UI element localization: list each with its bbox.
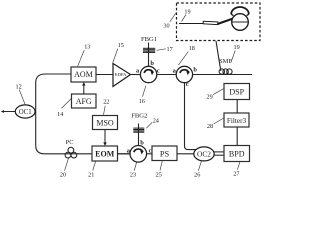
svg-text:PS: PS [160,149,170,158]
svg-text:DSP: DSP [229,87,244,96]
svg-text:26: 26 [194,171,200,178]
svg-text:22: 22 [103,98,109,105]
pointer 15 [113,49,118,63]
pointer 21 [93,161,96,170]
svg-text:21: 21 [88,171,94,178]
svg-text:16: 16 [139,98,145,105]
wire OC1 to AOM and down to PC/EOM [36,74,130,154]
wire Filter3 to DSP [236,100,238,114]
pointer 16 [143,86,146,97]
pointer 23 [134,162,136,170]
amplifier EDFA [113,64,131,87]
svg-text:13: 13 [84,43,90,50]
svg-text:AFG: AFG [76,97,92,106]
svg-text:OC1: OC1 [19,109,32,116]
AOM box [71,67,96,82]
pointer 14 [62,99,72,109]
optical coupler OC2 [194,147,214,161]
fiber wound lead (thick) [218,18,235,24]
double wire OC2 to BPD [214,152,224,155]
FBG2 fiber stub [138,124,140,146]
pointer 28 [214,118,224,124]
svg-text:18: 18 [189,45,195,52]
wire BPD to Filter3 [236,127,238,146]
svg-text:23: 23 [130,171,136,178]
svg-text:24: 24 [153,118,159,125]
Filter3 box [224,113,249,127]
svg-text:MSO: MSO [96,119,114,128]
pointer 27 [237,162,240,170]
svg-text:28: 28 [207,123,213,130]
pointer 26 [198,161,201,171]
wire circulator18 to fiber end [193,74,252,76]
pointer 25 [160,161,162,171]
svg-text:FBG2: FBG2 [131,113,147,120]
SMF coil [219,69,232,74]
fiber sensing segment [203,21,218,24]
svg-text:15: 15 [118,42,124,49]
dashed enclosure 30 [177,3,261,41]
svg-text:b: b [140,140,144,147]
svg-text:19: 19 [234,44,240,51]
wire circulator16 to circulator18 [157,74,177,76]
wire AOM to EDFA [96,74,113,76]
svg-text:b: b [193,67,197,74]
pointer 17 [157,49,166,51]
fiber inside box [179,23,203,25]
FBG1 grating bars [143,48,155,52]
wire circulator23 to PS [147,153,152,155]
wire circulator18 port c down to OC2 [185,83,197,150]
circulator 18 [176,66,192,82]
arrow MSO to EOM [103,130,106,147]
svg-text:25: 25 [156,171,162,178]
pointer 24 [146,122,152,128]
svg-text:12: 12 [16,83,22,90]
svg-text:29: 29 [207,93,213,100]
svg-text:BPD: BPD [229,149,245,158]
vibration arc [231,7,249,14]
svg-text:19: 19 [184,8,190,15]
svg-text:PC: PC [66,139,74,146]
FBG2 grating bars [133,128,144,132]
EOM box [92,146,118,161]
svg-text:c: c [186,81,189,88]
wire EDFA to circulator 16 [131,74,141,76]
svg-text:30: 30 [163,23,169,30]
pointer 19 right [231,51,236,64]
arrow AFG to AOM [82,82,85,94]
pointer 13 [78,50,85,66]
PS box [152,146,177,161]
pointer 30 [170,13,176,22]
pointer 12 [19,90,25,105]
svg-text:EDFA: EDFA [115,72,127,77]
vibration arc end hooks [231,14,249,15]
arrow laser input head [1,110,4,113]
FBG1 fiber stub [148,43,150,67]
optical coupler OC1 [15,105,35,118]
circulator 16 [140,66,156,82]
wire sensing fiber into dashed box [216,41,221,71]
pointer 18 [178,52,188,66]
svg-text:c: c [157,68,160,75]
PC coil [65,147,77,158]
svg-text:27: 27 [233,171,239,178]
svg-text:EOM: EOM [95,150,115,159]
wire PS to OC2 [177,153,194,155]
svg-text:14: 14 [57,111,63,118]
svg-text:17: 17 [167,46,173,53]
drum axis line [232,21,249,23]
svg-text:FBG1: FBG1 [141,36,157,43]
svg-text:SMF: SMF [219,58,232,65]
wire EOM to circulator 23 [118,153,131,155]
pointer 20 [65,158,69,170]
AFG box [72,94,97,108]
svg-text:20: 20 [60,171,66,178]
pointer 19 inside box [182,15,187,22]
svg-text:b: b [150,60,154,67]
circulator 23 [130,146,147,163]
wire laser input [3,111,16,113]
svg-text:Filter3: Filter3 [227,117,247,125]
DSP box [224,84,250,100]
pointer 22 [104,106,106,115]
svg-text:OC2: OC2 [197,149,211,158]
svg-text:AOM: AOM [74,70,93,79]
pointer 29 [213,89,224,95]
BPD box [224,146,250,162]
MSO box [93,116,118,130]
PZT drum [232,14,249,31]
